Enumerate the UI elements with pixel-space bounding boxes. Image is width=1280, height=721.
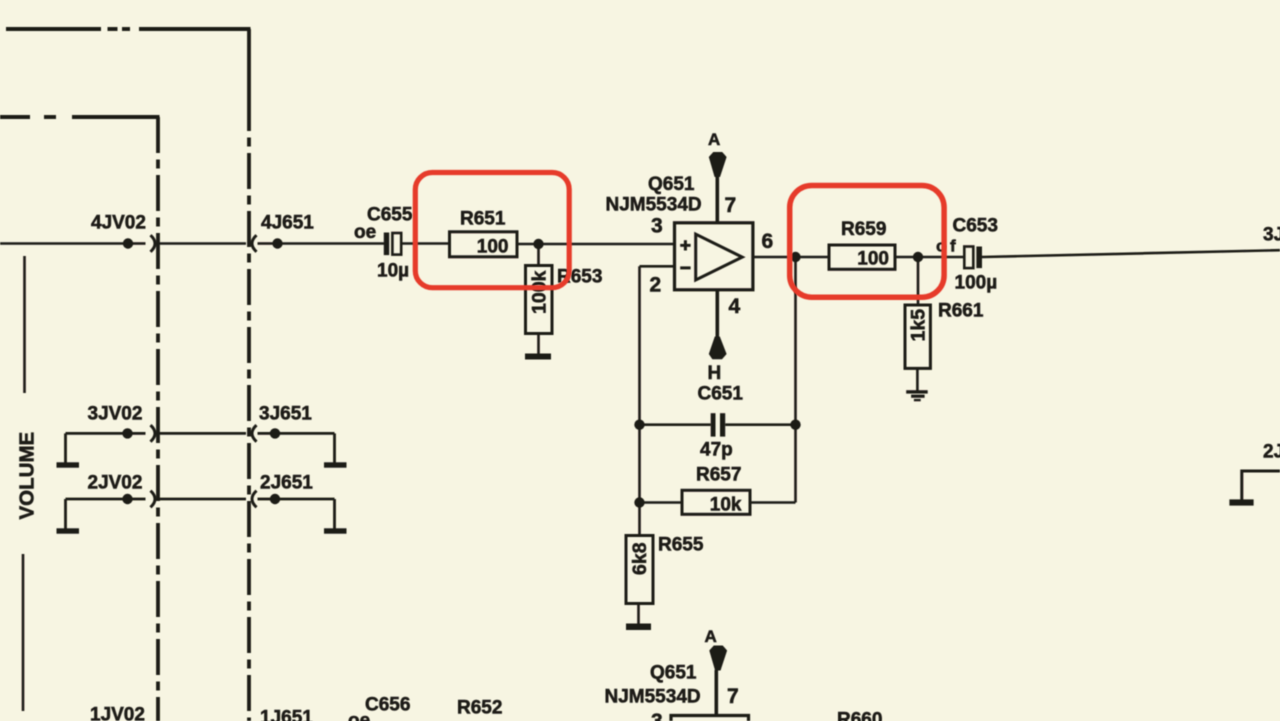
svg-text:A: A bbox=[705, 627, 717, 646]
svg-text:10µ: 10µ bbox=[377, 261, 409, 282]
svg-text:1J651: 1J651 bbox=[260, 708, 313, 721]
svg-text:6k8: 6k8 bbox=[629, 542, 651, 575]
ground R655 bbox=[626, 624, 651, 631]
svg-text:R660: R660 bbox=[837, 710, 882, 721]
svg-text:NJM5534D: NJM5534D bbox=[606, 195, 702, 216]
svg-text:NJM5534D: NJM5534D bbox=[605, 687, 701, 708]
node junction dot R651/R653 bbox=[533, 239, 543, 249]
svg-text:Q651: Q651 bbox=[650, 663, 697, 684]
op-amp U651 box bbox=[675, 223, 753, 290]
svg-text:100: 100 bbox=[857, 249, 889, 270]
node output junction dot bbox=[790, 252, 800, 262]
resistor R661 bbox=[905, 257, 930, 391]
wire R659 to node bbox=[895, 256, 914, 259]
pin 4 wire bbox=[715, 290, 719, 337]
svg-text:R651: R651 bbox=[460, 209, 506, 230]
capacitor C653 bbox=[964, 247, 982, 269]
svg-text:7: 7 bbox=[725, 194, 737, 217]
node R657 left dot bbox=[634, 497, 644, 507]
supply arrow H (bottom) bbox=[709, 337, 727, 360]
node C651 right dot bbox=[790, 420, 800, 430]
node R661 junction dot bbox=[913, 252, 923, 262]
feedback right vertical wire bbox=[794, 257, 797, 503]
ground R661 (chassis) bbox=[906, 390, 928, 401]
wire bbox=[258, 242, 273, 245]
wire R651 to op-amp bbox=[517, 243, 675, 246]
ground 2J651 bbox=[324, 528, 347, 533]
wire channel4 input bbox=[0, 242, 124, 245]
feedback left vertical wire bbox=[638, 266, 641, 535]
connector 3JV02 bbox=[151, 425, 156, 442]
resistor R653 bbox=[526, 246, 553, 354]
op-amp triangle bbox=[696, 234, 743, 280]
svg-text:VOLUME: VOLUME bbox=[16, 432, 39, 520]
svg-text:1JV02: 1JV02 bbox=[90, 705, 145, 721]
svg-text:10k: 10k bbox=[710, 495, 742, 516]
svg-text:C651: C651 bbox=[698, 384, 744, 405]
ground 3JV02 bbox=[57, 462, 80, 467]
top dash-dot border line 1 bbox=[6, 27, 251, 31]
wire to R659 bbox=[799, 256, 830, 259]
wire 2JV02 left drop bbox=[64, 499, 67, 529]
wire to C653 bbox=[923, 256, 965, 259]
svg-text:2JV02: 2JV02 bbox=[88, 473, 143, 494]
svg-text:4JV02: 4JV02 bbox=[91, 213, 146, 234]
node junction dot after 4J651 bbox=[272, 238, 282, 248]
right dash-dot board boundary vertical bbox=[247, 29, 251, 95]
svg-text:C656: C656 bbox=[365, 695, 410, 716]
capacitor C651 bbox=[640, 413, 796, 436]
resistor R659 bbox=[829, 245, 895, 269]
svg-text:7: 7 bbox=[727, 685, 739, 708]
wire 3J651 right drop bbox=[333, 433, 336, 462]
resistor R657 bbox=[640, 490, 796, 514]
minus input mark bbox=[680, 266, 690, 269]
supply arrow A (bottom op-amp) bbox=[709, 646, 727, 671]
svg-text:f: f bbox=[950, 237, 956, 256]
svg-text:Q651: Q651 bbox=[648, 174, 695, 195]
highlight red rounded rect around R651 bbox=[415, 173, 569, 288]
top dash-dot border line 2 bbox=[0, 115, 160, 119]
resistor R651 bbox=[450, 232, 518, 257]
VOLUME section line bbox=[23, 256, 26, 393]
svg-text:3JV02: 3JV02 bbox=[88, 404, 143, 425]
svg-text:2: 2 bbox=[650, 274, 662, 297]
svg-text:100: 100 bbox=[477, 236, 509, 257]
node 4JV02 junction dot bbox=[123, 238, 133, 248]
connector 4J651 bbox=[252, 235, 257, 252]
resistor R655 bbox=[626, 536, 653, 625]
svg-text:A: A bbox=[708, 130, 720, 149]
wire between boards row3 bbox=[160, 432, 247, 435]
supply arrow A (top) bbox=[709, 152, 727, 177]
svg-text:100µ: 100µ bbox=[955, 273, 998, 294]
capacitor C655 bbox=[384, 233, 401, 256]
svg-text:C655: C655 bbox=[367, 205, 413, 226]
ground bottom right bbox=[1229, 499, 1253, 505]
svg-text:R661: R661 bbox=[938, 301, 984, 322]
svg-text:1k5: 1k5 bbox=[908, 309, 930, 342]
svg-text:H: H bbox=[708, 363, 722, 384]
ground R653 bbox=[525, 354, 551, 360]
output wire to right edge bbox=[982, 250, 1280, 257]
svg-text:R652: R652 bbox=[457, 698, 502, 719]
wire between boards bbox=[160, 242, 247, 245]
pin2 feedback wire bbox=[640, 265, 675, 268]
wire 3JV02 left drop bbox=[64, 433, 67, 462]
op-amp U651b (bottom, partial) bbox=[671, 670, 749, 721]
svg-text:R655: R655 bbox=[658, 535, 704, 556]
svg-text:2J65: 2J65 bbox=[1263, 442, 1280, 463]
wire row 2JV02 bbox=[66, 494, 146, 504]
ground 2JV02 bbox=[57, 528, 80, 533]
wire row3 right bbox=[258, 428, 335, 438]
svg-text:C653: C653 bbox=[953, 216, 998, 237]
wire 2J651 right drop bbox=[333, 499, 336, 529]
highlight red rounded rect around R659 bbox=[790, 186, 944, 298]
connector 4JV02 bbox=[151, 235, 156, 252]
svg-text:oe: oe bbox=[348, 711, 370, 721]
svg-text:100k: 100k bbox=[529, 270, 551, 314]
wire row 3JV02 bbox=[66, 428, 146, 438]
svg-text:R659: R659 bbox=[841, 219, 886, 240]
pin 7 wire bbox=[715, 174, 719, 223]
plus input mark bbox=[680, 240, 690, 250]
bottom right bracket wire 2J651 main board bbox=[1242, 471, 1280, 501]
output wire pin6 bbox=[753, 256, 790, 259]
left dash-dot board boundary vertical bbox=[156, 117, 160, 721]
svg-text:3: 3 bbox=[651, 215, 663, 238]
ground 3J651 bbox=[324, 462, 347, 467]
svg-text:R657: R657 bbox=[696, 465, 741, 486]
svg-text:3J65: 3J65 bbox=[1263, 225, 1280, 246]
svg-text:47p: 47p bbox=[700, 440, 733, 461]
connector 2JV02 bbox=[151, 491, 156, 508]
wire bbox=[132, 242, 146, 245]
connector 3J651 bbox=[252, 425, 257, 442]
wire to C655 bbox=[282, 242, 384, 245]
svg-text:3: 3 bbox=[651, 710, 663, 721]
node C651 left dot bbox=[634, 420, 644, 430]
wire row2 right bbox=[258, 494, 335, 504]
svg-text:4J651: 4J651 bbox=[261, 213, 314, 234]
wire C655 to R651 bbox=[402, 242, 450, 245]
svg-text:6: 6 bbox=[762, 230, 774, 253]
svg-text:3J651: 3J651 bbox=[259, 404, 312, 425]
wire between boards row2 bbox=[160, 498, 247, 501]
connector 2J651 bbox=[252, 491, 257, 508]
svg-text:2J651: 2J651 bbox=[260, 473, 313, 494]
svg-text:4: 4 bbox=[729, 295, 741, 318]
